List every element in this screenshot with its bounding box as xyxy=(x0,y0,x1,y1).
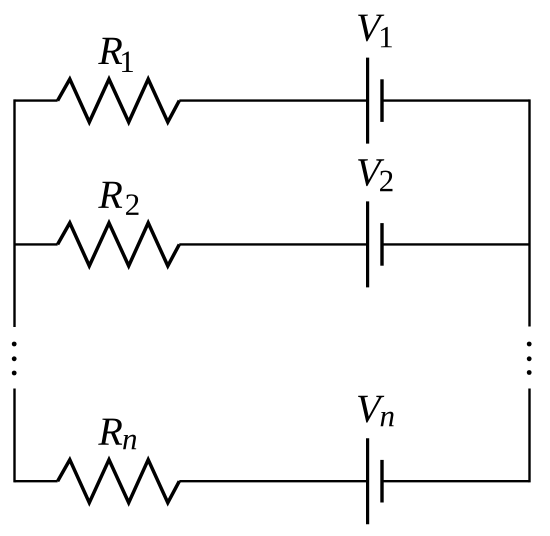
label Vn subscript n xyxy=(381,412,394,427)
wire row2 middle xyxy=(179,243,367,245)
wire left rail lower xyxy=(13,389,15,483)
wire row2 right xyxy=(382,243,530,245)
wire row2 left xyxy=(15,243,58,245)
label R2 xyxy=(98,182,122,208)
label Rn subscript n xyxy=(123,435,136,450)
label V2 xyxy=(358,159,384,186)
battery V2 short plate (negative) xyxy=(380,223,383,266)
battery V1 short plate (negative) xyxy=(380,79,383,122)
battery V2 long plate (positive) xyxy=(366,201,369,287)
wire right rail upper xyxy=(528,99,530,326)
wire right rail lower xyxy=(528,389,530,483)
left ellipsis dots xyxy=(12,342,17,347)
wire row3 right xyxy=(382,480,530,482)
battery V1 long plate (positive) xyxy=(366,58,369,144)
label R1 xyxy=(98,38,122,64)
wire left rail upper xyxy=(13,99,15,327)
wire row3 left xyxy=(15,480,58,482)
resistor R1 xyxy=(58,79,180,122)
label Rn xyxy=(98,419,122,445)
wire row3 middle xyxy=(179,480,367,482)
battery Vn long plate (positive) xyxy=(366,438,369,524)
wire row1 left xyxy=(15,99,58,101)
label V1 subscript 1 xyxy=(381,27,392,47)
battery Vn short plate (negative) xyxy=(380,460,383,503)
label R2 subscript 2 xyxy=(126,194,138,215)
wire row1 right xyxy=(382,99,530,101)
right ellipsis dots xyxy=(527,342,532,347)
resistor R2 xyxy=(58,223,180,266)
label R1 subscript 1 xyxy=(122,52,133,72)
label V1 xyxy=(358,15,384,42)
resistor Rn xyxy=(58,460,180,503)
label V2 subscript 2 xyxy=(380,171,392,192)
label Vn xyxy=(358,396,384,423)
wire row1 middle xyxy=(179,99,367,101)
